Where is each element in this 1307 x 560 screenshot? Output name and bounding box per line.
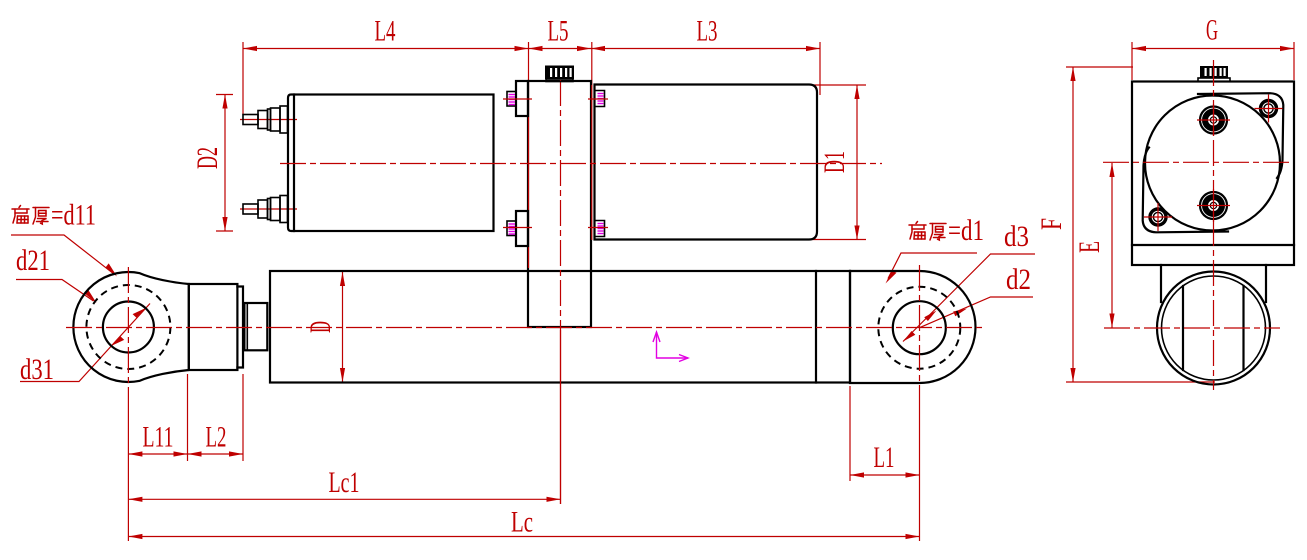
dimension L1: [850, 386, 920, 481]
centerline: pump vertical axis: [560, 80, 562, 330]
svg-text:Lc1: Lc1: [329, 466, 360, 499]
leader d31: [20, 304, 150, 387]
svg-text:L11: L11: [143, 421, 174, 454]
side tube outer circle: [1157, 272, 1270, 385]
pump bolt top-right: [588, 91, 608, 107]
side pump bottom band line: [1132, 244, 1294, 246]
side neck right: [1265, 265, 1267, 302]
centerline: side flange horizontal: [1103, 161, 1291, 163]
side screw corner bottom-left: [1144, 203, 1172, 231]
svg-text:L3: L3: [697, 15, 718, 48]
pump bolt bottom-left: [503, 221, 532, 236]
centerline: motor/pump axis: [280, 163, 882, 165]
rod spacer line: [246, 303, 248, 350]
svg-text:d21: d21: [16, 244, 50, 277]
side screw bottom: [1197, 189, 1230, 222]
centerline: left eye vertical: [127, 267, 129, 395]
dimension G: [1132, 14, 1294, 81]
cylinder tube: [270, 271, 850, 383]
dimension L3: [591, 15, 820, 96]
svg-text:d2: d2: [1006, 263, 1031, 296]
dimension Lc: [128, 506, 919, 540]
dimension Lc1: [128, 330, 560, 504]
left eye dashed circle: [86, 285, 170, 369]
rod end block: [189, 284, 238, 370]
svg-text:d3: d3: [1004, 220, 1029, 253]
right eye dashed circle: [878, 287, 960, 369]
side tube chord right: [1242, 286, 1244, 370]
side screw corner top-right: [1255, 95, 1283, 123]
centerline: side tube horizontal: [1104, 327, 1280, 329]
terminal centerline lower: [240, 208, 297, 210]
side cap: [1198, 66, 1230, 82]
pump cap: [545, 66, 574, 82]
pump tab top-left: [516, 81, 528, 116]
side flange circle: [1145, 96, 1280, 231]
extension: pump vertical lower: [560, 330, 562, 504]
terminal centerline upper: [240, 119, 297, 121]
leader bianhou=d11: [11, 199, 117, 277]
cylinder cap joint line: [815, 271, 817, 383]
left eye outline: [73, 272, 188, 382]
centerline: right eye vertical: [919, 265, 921, 395]
extension line L5 over block: [591, 85, 593, 240]
leader d3: [903, 220, 1035, 342]
side flange tab bottom-left: [1143, 148, 1228, 233]
side tube chord left: [1182, 286, 1184, 370]
side screw top: [1197, 104, 1230, 136]
dimension D: [304, 272, 345, 382]
tank body: [595, 85, 818, 240]
dimension L5: [529, 15, 592, 82]
pump block: [528, 81, 591, 327]
dimension F: [1035, 67, 1215, 382]
side tube inner circle: [1162, 276, 1266, 380]
dimension D2: [191, 95, 233, 232]
right eye block outline: [850, 271, 976, 383]
extension: right eye vertical lower: [919, 395, 921, 541]
svg-text:G: G: [1206, 14, 1218, 47]
leader d2: [920, 263, 1034, 328]
left eye inner hole: [103, 302, 154, 353]
svg-text:D1: D1: [818, 151, 851, 173]
dimension E: [1073, 163, 1115, 328]
motor M body: [294, 95, 494, 232]
pump bolt bottom-right: [588, 221, 608, 237]
pump bolt top-left: [503, 92, 532, 107]
extension line L4 over block: [528, 81, 530, 268]
side pump square body: [1132, 82, 1294, 266]
centerline: side view vertical: [1213, 60, 1215, 390]
dimension D1: [812, 85, 866, 240]
extension: left eye vertical lower: [127, 395, 129, 541]
rod end plate: [237, 287, 243, 368]
svg-text:F: F: [1035, 218, 1068, 230]
right eye block weld line: [849, 271, 851, 383]
coordinate axis symbol: [653, 332, 688, 362]
svg-text:L2: L2: [206, 421, 227, 454]
pump tab bottom-left: [516, 211, 528, 246]
dimension L11: [128, 374, 187, 461]
svg-text:=d11: =d11: [51, 199, 96, 232]
side neck left: [1160, 265, 1162, 302]
centerline: cylinder axis: [66, 327, 984, 329]
leader bianhou=d1: [886, 214, 985, 284]
motor terminal lower: [243, 196, 288, 223]
side flange tab top-right: [1198, 93, 1283, 178]
right eye inner hole: [893, 301, 946, 354]
svg-text:E: E: [1073, 241, 1106, 253]
svg-text:=d1: =d1: [948, 214, 984, 247]
motor M end plate: [288, 95, 294, 232]
leader d21: [16, 244, 97, 303]
motor terminal upper: [243, 106, 288, 133]
svg-text:L4: L4: [375, 15, 396, 48]
svg-text:L1: L1: [874, 441, 895, 474]
svg-text:L5: L5: [548, 15, 569, 48]
svg-text:Lc: Lc: [511, 506, 533, 539]
rod spacer: [244, 303, 267, 350]
svg-text:D2: D2: [191, 147, 224, 169]
dimension L2: [188, 374, 244, 461]
